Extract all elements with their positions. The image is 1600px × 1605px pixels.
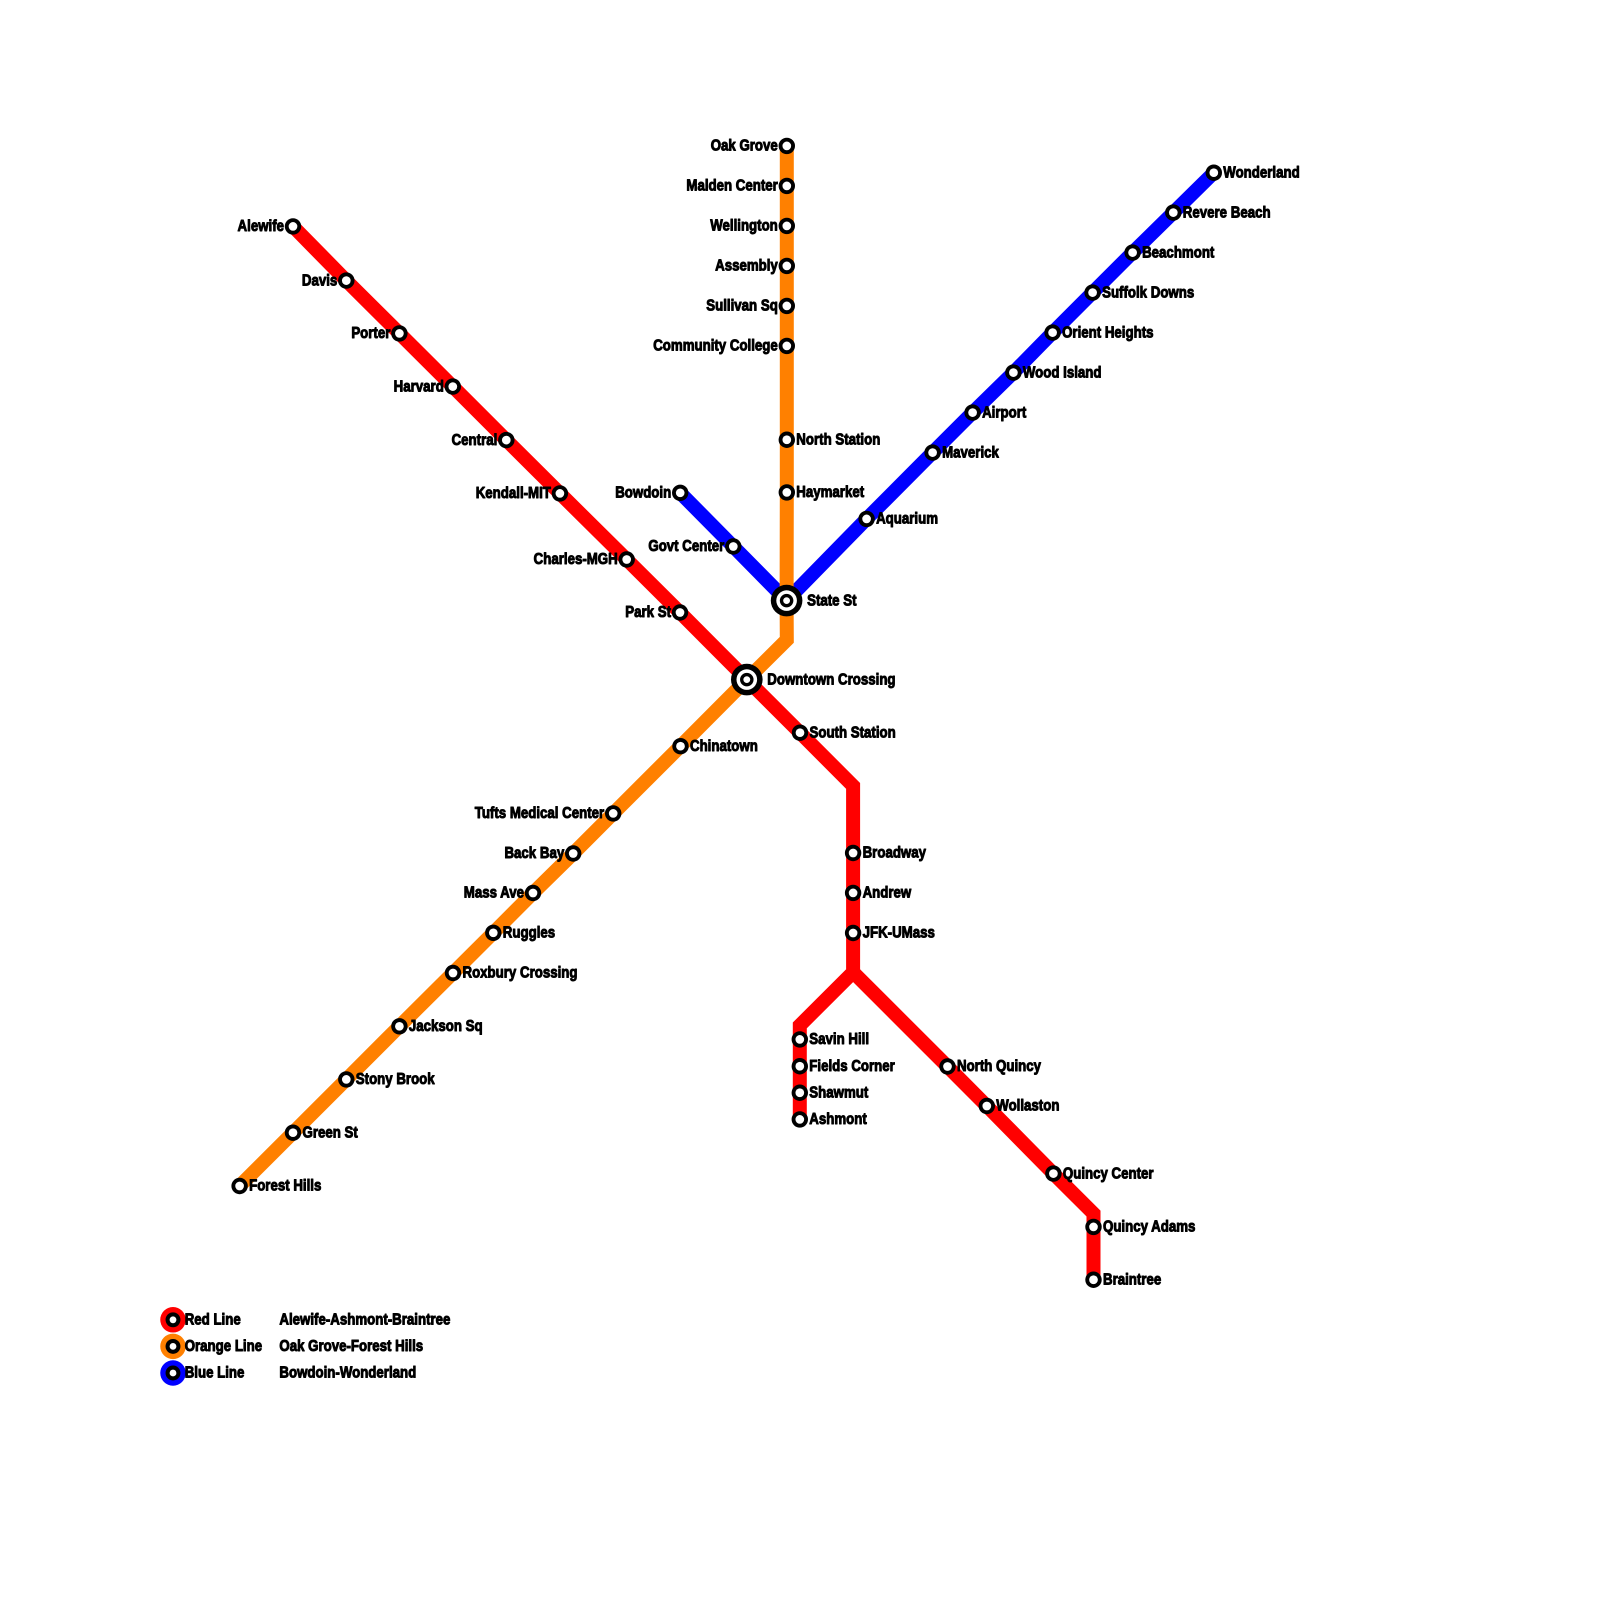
- station Maverick: [924, 444, 940, 460]
- svg-text:Govt Center: Govt Center: [648, 538, 724, 555]
- svg-text:Quincy Center: Quincy Center: [1063, 1165, 1154, 1182]
- svg-text:Oak Grove-Forest Hills: Oak Grove-Forest Hills: [279, 1338, 423, 1355]
- station Wonderland: [1206, 165, 1222, 181]
- station Airport: [964, 404, 980, 420]
- station Bowdoin: [672, 485, 688, 501]
- station Orient Heights: [1044, 324, 1060, 340]
- svg-text:Stony Brook: Stony Brook: [356, 1071, 436, 1088]
- svg-text:Assembly: Assembly: [715, 258, 778, 275]
- station Haymarket: [779, 484, 795, 500]
- legend marker Blue Line: [160, 1360, 186, 1386]
- Red Line Braintree branch: [853, 972, 1093, 1280]
- Red Line trunk: Alewife-Ashmont: [293, 226, 853, 1119]
- svg-text:Beachmont: Beachmont: [1142, 244, 1214, 261]
- svg-text:Ruggles: Ruggles: [503, 924, 555, 941]
- svg-text:JFK-UMass: JFK-UMass: [863, 925, 935, 942]
- svg-text:Maverick: Maverick: [942, 444, 1000, 461]
- svg-text:North Station: North Station: [796, 431, 880, 448]
- station Back Bay: [565, 845, 581, 861]
- svg-text:Kendall-MIT: Kendall-MIT: [476, 485, 551, 502]
- svg-text:Revere Beach: Revere Beach: [1183, 204, 1271, 221]
- station Stony Brook: [338, 1071, 354, 1087]
- station Tufts Medical Center: [605, 805, 621, 821]
- svg-text:Chinatown: Chinatown: [690, 738, 758, 755]
- svg-text:Braintree: Braintree: [1103, 1271, 1161, 1288]
- station Ruggles: [485, 925, 501, 941]
- svg-text:Charles-MGH: Charles-MGH: [534, 551, 618, 568]
- svg-text:Mass Ave: Mass Ave: [464, 885, 524, 902]
- svg-text:Broadway: Broadway: [863, 845, 927, 862]
- svg-text:Ashmont: Ashmont: [809, 1111, 867, 1128]
- station Quincy Adams: [1085, 1219, 1101, 1235]
- station Green St: [285, 1125, 301, 1141]
- svg-text:Davis: Davis: [302, 272, 337, 289]
- station North Station: [779, 432, 795, 448]
- svg-text:Airport: Airport: [982, 404, 1026, 421]
- svg-text:Shawmut: Shawmut: [809, 1084, 868, 1101]
- station Wellington: [779, 218, 795, 234]
- svg-text:Orient Heights: Orient Heights: [1062, 324, 1153, 341]
- station Roxbury Crossing: [445, 965, 461, 981]
- station Broadway: [845, 845, 861, 861]
- station Revere Beach: [1165, 204, 1181, 220]
- svg-text:Red Line: Red Line: [185, 1311, 241, 1328]
- legend marker Red Line: [160, 1307, 186, 1333]
- station Harvard: [445, 378, 461, 394]
- svg-text:Orange Line: Orange Line: [185, 1338, 262, 1355]
- svg-text:Savin Hill: Savin Hill: [809, 1031, 869, 1048]
- station Ashmont: [792, 1111, 808, 1127]
- svg-text:Wellington: Wellington: [710, 218, 778, 235]
- station Savin Hill: [792, 1031, 808, 1047]
- svg-text:Sullivan Sq: Sullivan Sq: [706, 298, 778, 315]
- station Andrew: [845, 885, 861, 901]
- station Assembly: [779, 258, 795, 274]
- station JFK-UMass: [845, 925, 861, 941]
- station Charles-MGH: [619, 551, 635, 567]
- svg-text:Haymarket: Haymarket: [796, 484, 864, 501]
- station Mass Ave: [525, 885, 541, 901]
- station Porter: [391, 325, 407, 341]
- svg-text:Andrew: Andrew: [863, 885, 912, 902]
- svg-text:Bowdoin-Wonderland: Bowdoin-Wonderland: [279, 1365, 416, 1382]
- station Suffolk Downs: [1084, 284, 1100, 300]
- station Wood Island: [1005, 364, 1021, 380]
- legend marker Orange Line: [160, 1334, 186, 1360]
- station Govt Center: [725, 538, 741, 554]
- station Aquarium: [858, 511, 874, 527]
- svg-text:Community College: Community College: [653, 338, 778, 355]
- svg-text:Roxbury Crossing: Roxbury Crossing: [463, 965, 578, 982]
- station South Station: [792, 725, 808, 741]
- svg-text:Aquarium: Aquarium: [876, 511, 938, 528]
- station Fields Corner: [792, 1058, 808, 1074]
- svg-text:Alewife-Ashmont-Braintree: Alewife-Ashmont-Braintree: [279, 1311, 450, 1328]
- station Oak Grove: [779, 138, 795, 154]
- station Jackson Sq: [391, 1018, 407, 1034]
- station Quincy Center: [1045, 1165, 1061, 1181]
- svg-text:Alewife: Alewife: [238, 218, 284, 235]
- Blue Line: Bowdoin-Wonderland: [680, 173, 1214, 601]
- station Beachmont: [1124, 244, 1140, 260]
- svg-text:Park St: Park St: [625, 604, 671, 621]
- svg-text:Downtown Crossing: Downtown Crossing: [767, 671, 895, 688]
- svg-text:Harvard: Harvard: [394, 378, 444, 395]
- svg-text:State St: State St: [807, 592, 856, 609]
- svg-text:Wood Island: Wood Island: [1023, 364, 1102, 381]
- station Downtown Crossing: [731, 664, 763, 696]
- svg-text:Oak Grove: Oak Grove: [711, 138, 778, 155]
- station Park St: [672, 604, 688, 620]
- svg-text:Central: Central: [452, 432, 498, 449]
- svg-text:South Station: South Station: [810, 724, 896, 741]
- station Forest Hills: [231, 1178, 247, 1194]
- svg-text:Tufts Medical Center: Tufts Medical Center: [475, 805, 605, 822]
- svg-text:Jackson Sq: Jackson Sq: [409, 1018, 483, 1035]
- station Braintree: [1085, 1272, 1101, 1288]
- svg-text:Fields Corner: Fields Corner: [809, 1058, 895, 1075]
- station Davis: [338, 272, 354, 288]
- svg-text:Blue Line: Blue Line: [185, 1365, 245, 1382]
- station Alewife: [285, 218, 301, 234]
- station Kendall-MIT: [552, 485, 568, 501]
- station Sullivan Sq: [779, 298, 795, 314]
- station Central: [498, 432, 514, 448]
- svg-text:North Quincy: North Quincy: [957, 1058, 1042, 1075]
- station Shawmut: [792, 1085, 808, 1101]
- svg-text:Suffolk Downs: Suffolk Downs: [1102, 284, 1194, 301]
- svg-text:Forest Hills: Forest Hills: [249, 1178, 321, 1195]
- svg-text:Back Bay: Back Bay: [504, 845, 564, 862]
- Orange Line: Oak Grove-Forest Hills: [240, 146, 787, 1186]
- svg-text:Quincy Adams: Quincy Adams: [1103, 1219, 1195, 1236]
- svg-text:Malden Center: Malden Center: [686, 178, 778, 195]
- station Chinatown: [672, 738, 688, 754]
- svg-text:Wollaston: Wollaston: [996, 1098, 1059, 1115]
- svg-text:Bowdoin: Bowdoin: [615, 484, 671, 501]
- svg-text:Green St: Green St: [303, 1124, 358, 1141]
- svg-text:Porter: Porter: [351, 325, 390, 342]
- station North Quincy: [939, 1058, 955, 1074]
- station Malden Center: [779, 178, 795, 194]
- station Community College: [779, 338, 795, 354]
- station Wollaston: [979, 1098, 995, 1114]
- svg-text:Wonderland: Wonderland: [1223, 164, 1299, 181]
- station State St: [771, 585, 803, 617]
